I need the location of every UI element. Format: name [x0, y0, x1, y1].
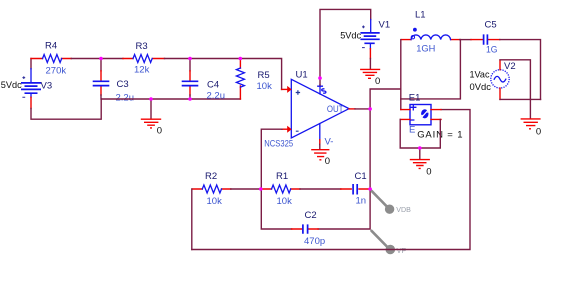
svg-text:R5: R5	[258, 70, 270, 81]
pin: V1 minus	[369, 49, 371, 59]
capacitor C1	[341, 184, 369, 195]
inductor L1	[402, 28, 460, 40]
node: C4 bottom	[188, 97, 192, 101]
svg-text:C2: C2	[305, 210, 317, 221]
svg-text:1n: 1n	[356, 196, 367, 207]
svg-text:L1: L1	[415, 10, 426, 21]
svg-text:E: E	[409, 125, 415, 136]
wire: R5 node to op-amp plus input	[240, 59, 281, 90]
node: E1 ground	[418, 146, 422, 150]
svg-text:OUT: OUT	[327, 104, 344, 115]
svg-text:C3: C3	[117, 79, 129, 90]
pin: E1 left pins	[400, 110, 410, 120]
svg-text:1GH: 1GH	[416, 44, 435, 55]
ground 0 (filter)	[141, 99, 161, 128]
svg-text:10k: 10k	[277, 196, 293, 207]
wire: R2 to node	[231, 188, 261, 190]
svg-text:5Vdc: 5Vdc	[1, 80, 22, 91]
wire: L1 left leg down to E1	[400, 40, 402, 110]
node: R1/R2 junction	[259, 187, 263, 191]
ground 0 (V1)	[360, 59, 380, 79]
wire: V2 bottom row	[500, 98, 541, 100]
svg-text:R2: R2	[205, 171, 217, 182]
svg-text:C1: C1	[355, 171, 367, 182]
resistor R5	[236, 59, 244, 100]
battery V3	[21, 69, 41, 98]
svg-text:12k: 12k	[134, 65, 150, 76]
wire: minus input from R2/R1 node	[261, 129, 291, 229]
pin: op-amp minus input arrow	[282, 128, 288, 130]
wire: E1 lower loop to ground	[400, 119, 440, 148]
wire: output node down to C2 corner	[318, 109, 370, 229]
wire: output node riser to E1 plus	[370, 89, 401, 109]
pin: V2 bottom	[499, 88, 501, 99]
svg-text:5Vdc: 5Vdc	[340, 31, 361, 42]
wire: R4 to C3 node	[71, 58, 101, 60]
pin: V3 minus	[30, 97, 32, 108]
node: V+ supply	[318, 76, 322, 80]
capacitor C4	[182, 59, 199, 100]
svg-text:2.2u: 2.2u	[116, 93, 135, 104]
svg-text:C4: C4	[207, 80, 219, 91]
svg-text:0: 0	[157, 126, 162, 137]
pin: V2 top	[499, 60, 501, 69]
svg-text:0: 0	[426, 167, 431, 178]
pin: op-amp plus input arrow	[282, 88, 288, 90]
svg-text:0: 0	[325, 156, 330, 167]
node: R5 top	[239, 57, 243, 61]
svg-text:C5: C5	[485, 20, 497, 31]
wire: L1 right node down and left	[401, 40, 461, 99]
pin: E1 right pins	[431, 110, 441, 120]
wire: C3 node to R3	[101, 58, 123, 60]
svg-text:V3: V3	[41, 81, 53, 92]
wire: C5 to right leg down	[500, 40, 541, 100]
svg-text:R1: R1	[276, 171, 288, 182]
wire: V3 bottom rail	[31, 99, 101, 119]
node: ground tap	[149, 97, 153, 101]
op-amp U1	[291, 79, 349, 139]
svg-text:10k: 10k	[257, 81, 273, 92]
wire: L1 to C5	[460, 39, 471, 41]
node: C4 top	[188, 57, 192, 61]
wire: R2 left leg to bottom rail	[191, 189, 193, 250]
svg-text:R4: R4	[45, 41, 57, 52]
battery V1	[360, 20, 379, 49]
node: output	[368, 107, 372, 111]
probe VP	[372, 231, 396, 255]
wire: feedback bottom rail	[192, 110, 470, 250]
wire: R1 to C1	[300, 188, 341, 190]
svg-text:V-: V-	[325, 137, 334, 148]
resistor R4	[31, 55, 71, 63]
svg-text:U1: U1	[296, 70, 308, 81]
ground 0 (E1)	[410, 148, 430, 168]
svg-text:V1: V1	[379, 20, 391, 31]
capacitor C2	[292, 224, 319, 233]
ground 0 (op-amp V-)	[311, 140, 329, 160]
ac source V2	[491, 70, 509, 88]
svg-text:NCS325: NCS325	[264, 138, 293, 149]
resistor R2	[192, 185, 231, 193]
wire: C3 bottom to R5 bottom	[101, 95, 240, 99]
svg-text:R3: R3	[136, 41, 148, 52]
svg-text:10k: 10k	[207, 196, 223, 207]
svg-text:V2: V2	[504, 61, 516, 72]
svg-text:470p: 470p	[304, 236, 325, 247]
ground 0 (V2)	[521, 99, 541, 128]
svg-text:E1: E1	[409, 93, 421, 104]
wire: V3 top riser	[30, 59, 32, 69]
svg-text:VDB: VDB	[396, 205, 411, 214]
wire: V2 top loop	[500, 60, 530, 100]
resistor R3	[123, 55, 165, 63]
probe VDB	[372, 191, 395, 214]
capacitor C5	[471, 34, 500, 44]
node: C3 top	[99, 57, 103, 61]
capacitor C3	[93, 59, 110, 96]
pin: op-amp output	[349, 108, 355, 110]
wire: output to node	[355, 108, 370, 110]
svg-text:0: 0	[536, 126, 541, 137]
svg-text:270k: 270k	[46, 66, 67, 77]
wire: R3 to C4 node	[165, 58, 191, 60]
resistor R1	[261, 185, 300, 193]
svg-text:0Vdc: 0Vdc	[470, 82, 492, 93]
svg-text:1G: 1G	[486, 45, 498, 56]
svg-text:VP: VP	[397, 246, 407, 255]
wire: C4 node to R5 node	[190, 58, 240, 60]
wire: V+ supply loop to V1	[320, 9, 371, 85]
node: C1 output	[368, 187, 372, 191]
svg-text:0: 0	[375, 76, 380, 87]
svg-text:2.2u: 2.2u	[207, 91, 226, 102]
vcvs E1	[410, 105, 431, 125]
svg-text:1Vac: 1Vac	[470, 70, 490, 81]
